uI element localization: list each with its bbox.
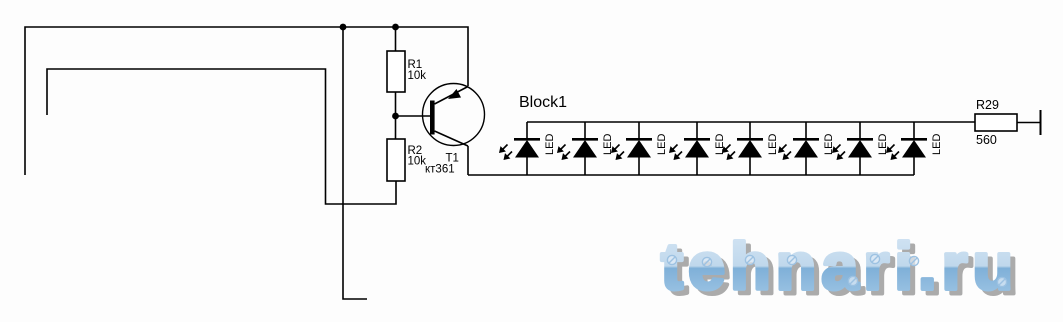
svg-text:10k: 10k [408,156,427,168]
svg-text:LED: LED [544,134,556,155]
svg-text:560: 560 [976,133,997,147]
svg-text:LED: LED [767,134,779,155]
svg-text:LED: LED [656,134,668,155]
svg-text:10k: 10k [408,70,427,82]
svg-text:LED: LED [931,134,943,155]
svg-text:tehnari.ru: tehnari.ru [661,229,1013,303]
svg-text:кт361: кт361 [425,164,455,176]
svg-text:R29: R29 [976,98,999,112]
svg-text:Block1: Block1 [519,94,567,111]
